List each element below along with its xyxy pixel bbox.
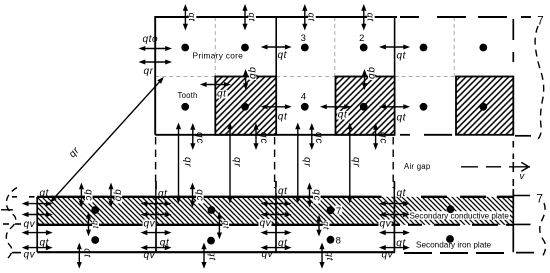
svg-text:qt: qt — [91, 220, 101, 229]
svg-text:Secondary conductive plate: Secondary conductive plate — [410, 211, 510, 220]
svg-text:qv: qv — [24, 219, 36, 230]
svg-text:7: 7 — [336, 206, 341, 217]
svg-text:7: 7 — [536, 193, 542, 205]
svg-text:qt: qt — [217, 89, 227, 100]
svg-text:qt: qt — [81, 248, 92, 258]
svg-text:qto: qto — [143, 34, 159, 45]
svg-text:qt: qt — [307, 13, 317, 22]
svg-text:qt: qt — [206, 251, 217, 261]
svg-text:qr: qr — [302, 157, 313, 168]
svg-text:qv: qv — [382, 250, 394, 261]
svg-text:4: 4 — [301, 92, 306, 103]
svg-text:qr: qr — [351, 157, 362, 168]
svg-text:qt: qt — [397, 51, 407, 62]
svg-text:qt: qt — [397, 188, 407, 199]
svg-text:qt: qt — [397, 113, 407, 124]
svg-text:qt: qt — [278, 50, 288, 61]
svg-text:qt: qt — [366, 13, 376, 22]
svg-text:qv: qv — [262, 249, 274, 260]
svg-text:qt: qt — [324, 252, 335, 262]
svg-text:qr: qr — [144, 66, 154, 77]
svg-text:qt: qt — [187, 13, 197, 22]
svg-text:Primary core: Primary core — [193, 51, 244, 61]
svg-text:v: v — [520, 171, 526, 182]
svg-text:qt: qt — [160, 237, 170, 248]
svg-text:qt: qt — [278, 186, 288, 197]
svg-text:qc: qc — [83, 189, 94, 201]
svg-text:qc: qc — [194, 189, 205, 201]
svg-text:8: 8 — [336, 236, 341, 247]
svg-text:qt: qt — [158, 188, 168, 199]
svg-text:qv: qv — [144, 219, 156, 230]
svg-text:Air gap: Air gap — [404, 162, 431, 171]
svg-text:qt: qt — [40, 188, 50, 199]
svg-text:qt: qt — [338, 110, 348, 121]
svg-text:qt: qt — [247, 13, 257, 22]
svg-text:qt: qt — [278, 238, 288, 249]
svg-text:qv: qv — [144, 250, 156, 261]
svg-text:qr: qr — [182, 157, 193, 168]
svg-text:qc: qc — [377, 132, 388, 144]
svg-text:Tooth: Tooth — [178, 91, 198, 100]
svg-text:qb: qb — [113, 189, 124, 202]
svg-text:2: 2 — [359, 33, 364, 44]
svg-text:qc: qc — [258, 132, 269, 144]
svg-text:qr: qr — [231, 157, 242, 168]
svg-text:Secondary iron plate: Secondary iron plate — [416, 241, 492, 250]
svg-text:qv: qv — [380, 219, 392, 230]
svg-text:qc: qc — [313, 132, 324, 144]
svg-text:qt: qt — [396, 238, 406, 249]
svg-text:qb: qb — [366, 67, 377, 80]
svg-text:7: 7 — [537, 15, 543, 27]
svg-text:qv: qv — [24, 250, 36, 261]
svg-text:qb: qb — [247, 67, 258, 80]
svg-text:3: 3 — [301, 33, 306, 44]
svg-text:qt: qt — [322, 221, 332, 230]
svg-text:qt: qt — [40, 238, 50, 249]
svg-text:qc: qc — [311, 189, 322, 201]
svg-text:qt: qt — [221, 221, 231, 230]
svg-text:qv: qv — [260, 218, 272, 229]
svg-text:qt: qt — [278, 112, 288, 123]
svg-text:qc: qc — [194, 132, 205, 144]
